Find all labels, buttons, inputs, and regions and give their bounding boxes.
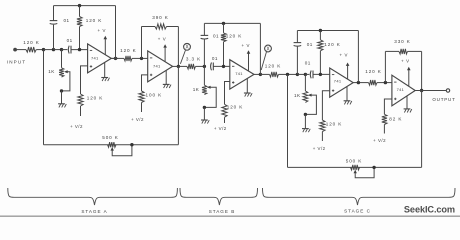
- svg-text:120 K: 120 K: [365, 69, 382, 74]
- capacitor C5 .01 (shunt): [294, 31, 313, 47]
- node VR5 return: [372, 166, 375, 169]
- node C5 (U4 output): [357, 81, 360, 84]
- svg-text:+ V: + V: [98, 28, 107, 33]
- wire top feedback down to U4 output: [357, 31, 359, 83]
- svg-text:OUTPUT: OUTPUT: [432, 97, 455, 102]
- resistor R12 120K (bias): [320, 120, 342, 131]
- svg-text:+ V: + V: [242, 43, 251, 48]
- U5 noninverting lead: [384, 99, 392, 114]
- svg-text:+ V/2: + V/2: [373, 138, 386, 143]
- wire stage A bottom: [44, 144, 179, 146]
- svg-text:500 K: 500 K: [102, 135, 119, 140]
- node B-top: [222, 22, 225, 25]
- node A2 (cap junction): [52, 48, 62, 51]
- wire R10 to stage C: [288, 73, 298, 75]
- wire R15 to +V/2: [383, 125, 385, 134]
- svg-text:741: 741: [397, 87, 405, 92]
- node B2 (op3 inverting input): [222, 65, 225, 68]
- node VR3 bottom: [203, 106, 206, 109]
- svg-text:INPUT: INPUT: [7, 60, 26, 65]
- wire R12 to +V/2: [321, 132, 323, 142]
- node C-top: [319, 29, 322, 32]
- label +V/2 (R12): [313, 146, 326, 151]
- wire R4 to U2 inverting input: [136, 57, 148, 59]
- svg-text:+ V/2: + V/2: [131, 117, 144, 122]
- svg-text:SeekIC.com: SeekIC.com: [404, 204, 455, 214]
- resistor R9 120K (bias): [222, 104, 243, 117]
- ground (U5): [404, 96, 412, 113]
- svg-text:741: 741: [235, 71, 243, 76]
- svg-text:120 K: 120 K: [87, 96, 104, 101]
- watermark SeekIC.com: [404, 204, 455, 214]
- wire R9 to +V/2: [224, 117, 226, 123]
- U1 +V supply: [98, 28, 108, 55]
- potentiometer VR2 500K: [102, 135, 119, 147]
- label +V/2 (R9): [214, 126, 227, 131]
- resistor R3 120K (bias): [78, 94, 103, 106]
- svg-text:01: 01: [307, 42, 313, 47]
- svg-text:1K: 1K: [193, 87, 200, 92]
- svg-text:741: 741: [91, 56, 99, 61]
- wire top down to R2: [79, 6, 81, 17]
- resistor R13 120K (U4-U5): [365, 69, 392, 85]
- svg-text:120 K: 120 K: [265, 63, 282, 68]
- wire C4 to op3: [213, 65, 230, 67]
- node A5 (U1 output): [114, 57, 117, 60]
- input terminal: [13, 48, 26, 52]
- wire stage C bottom: [288, 166, 422, 168]
- svg-text:500 K: 500 K: [346, 158, 363, 163]
- node A7 (U2 output): [173, 65, 187, 68]
- brace stage B: [180, 188, 258, 205]
- svg-text:01: 01: [213, 33, 219, 38]
- wire U3 output: [254, 73, 260, 75]
- capacitor C3 .01 (shunt): [201, 23, 219, 39]
- svg-text:+ V/2: + V/2: [214, 126, 227, 131]
- label +V/2 (R6): [131, 117, 144, 122]
- wire R5 down to U2 output: [177, 27, 179, 67]
- test point X (stage B out): [261, 45, 271, 70]
- capacitor C6 .01 (series): [305, 61, 313, 79]
- svg-text:741: 741: [334, 78, 342, 83]
- svg-text:330 K: 330 K: [394, 39, 411, 44]
- label STAGE C: [344, 209, 371, 214]
- svg-text:120 K: 120 K: [226, 33, 243, 38]
- svg-text:+ V: + V: [340, 53, 349, 58]
- resistor R10 120K (B out): [260, 63, 287, 77]
- svg-text:120 K: 120 K: [86, 18, 103, 23]
- svg-text:+ V/2: + V/2: [313, 146, 326, 151]
- ground (VR1): [58, 91, 66, 108]
- wire C2 up to C5: [296, 47, 298, 75]
- svg-text:120 K: 120 K: [326, 122, 343, 127]
- svg-text:01: 01: [67, 38, 73, 43]
- node A1 (input junction): [42, 48, 54, 51]
- node A4 (op1 inverting input): [78, 48, 81, 51]
- resistor R4 120K (U1-U2): [111, 48, 136, 61]
- wire B3 up (feedback): [259, 23, 261, 74]
- node B1: [203, 65, 206, 68]
- wire top feedback stage B: [204, 22, 260, 24]
- node C7 (U5 output): [415, 89, 446, 92]
- ground (VR4): [302, 114, 310, 132]
- svg-text:01: 01: [212, 56, 218, 61]
- label OUTPUT: [432, 97, 455, 102]
- wire A1 down (feedback return): [43, 50, 45, 145]
- svg-text:120 K: 120 K: [120, 48, 137, 53]
- svg-text:STAGE A: STAGE A: [81, 209, 107, 214]
- svg-text:01: 01: [63, 18, 69, 23]
- resistor R11 120K (feedback): [318, 31, 341, 51]
- potentiometer VR1 1K: [48, 50, 64, 77]
- wire R11 down to node C4: [319, 51, 321, 75]
- resistor R1 120K (input): [23, 40, 43, 52]
- wire top feedback stage C: [297, 30, 358, 32]
- test point X (stage A out): [180, 43, 190, 63]
- svg-text:01: 01: [305, 61, 311, 66]
- resistor R14 330K (U5 feedback): [385, 39, 421, 54]
- U1 noninverting lead: [81, 66, 88, 94]
- node A-top: [78, 4, 81, 7]
- bottom rule: [0, 215, 460, 217]
- svg-text:STAGE C: STAGE C: [344, 209, 371, 214]
- svg-text:+ V/2: + V/2: [70, 124, 83, 129]
- potentiometer VR5 500K: [346, 158, 363, 170]
- resistor R7 3.3K: [186, 57, 201, 69]
- VR5 wiper: [354, 167, 375, 177]
- node C1: [286, 73, 289, 76]
- node B3 (U3 output): [259, 73, 262, 76]
- capacitor C1 .01 (shunt): [50, 6, 70, 25]
- ground (U3): [244, 79, 252, 97]
- op-amp U2 741: [148, 51, 173, 82]
- wire top feedback stage A op1: [54, 5, 116, 7]
- U2 +V supply: [158, 37, 167, 62]
- VR1 wiper loop: [62, 70, 70, 91]
- VR4 wiper loop: [305, 94, 316, 115]
- node VR4 bottom: [304, 113, 307, 116]
- svg-text:741: 741: [153, 63, 161, 68]
- op-amp U4 741: [330, 68, 354, 97]
- ground (U4): [344, 87, 352, 105]
- svg-text:82 K: 82 K: [389, 117, 402, 122]
- capacitor C4 .01 (series): [211, 56, 218, 70]
- node C2: [296, 73, 306, 76]
- node VR1 bottom: [60, 89, 63, 92]
- resistor R15 82K (bias): [382, 114, 403, 124]
- wire C6 up to R14: [384, 51, 386, 82]
- wire C1 down (feedback return): [287, 74, 289, 167]
- wire R6 to +V/2: [141, 103, 143, 113]
- brace stage C: [263, 188, 456, 205]
- wire C6 to op4: [313, 73, 330, 75]
- label STAGE A: [81, 209, 107, 214]
- capacitor C2 .01 (series): [67, 38, 73, 53]
- label STAGE B: [209, 209, 236, 214]
- wire R14 down to U5 output: [421, 51, 423, 90]
- ground (VR3): [201, 107, 209, 123]
- wire top feedback down to U1 output: [115, 6, 117, 59]
- wire C7 down (feedback): [421, 91, 423, 168]
- U2 noninverting lead: [142, 75, 148, 91]
- svg-text:1K: 1K: [294, 93, 301, 98]
- U4 +V supply: [340, 53, 350, 80]
- wire A7 down (feedback): [177, 66, 179, 144]
- label +V/2 (R3): [70, 124, 83, 129]
- svg-text:STAGE B: STAGE B: [209, 209, 236, 214]
- svg-text:+ V: + V: [158, 37, 167, 42]
- node A3 (pot junction): [60, 48, 68, 51]
- op-amp U1 741: [88, 44, 112, 73]
- ground (U2): [163, 70, 171, 88]
- node C4 (op4 inverting input): [319, 73, 322, 76]
- VR2 wiper: [111, 145, 132, 156]
- U3 +V supply: [242, 43, 251, 71]
- wire C2 to op1 inverting input: [71, 49, 88, 51]
- svg-text:120 K: 120 K: [23, 40, 40, 45]
- wire U4 output: [353, 82, 368, 84]
- node C3 (pot junction): [304, 73, 310, 76]
- wire R3 to +V/2: [80, 106, 82, 116]
- op-amp U3 741: [230, 60, 254, 89]
- svg-text:+ V: + V: [401, 58, 410, 63]
- svg-text:100 K: 100 K: [146, 93, 163, 98]
- wire R2 to node A4: [79, 27, 81, 50]
- node VR2 return: [130, 143, 133, 146]
- svg-text:390 K: 390 K: [152, 15, 169, 20]
- potentiometer VR3 1K: [193, 66, 207, 94]
- resistor R2 120K (feedback): [77, 17, 102, 27]
- output terminal: [446, 89, 449, 92]
- label +V/2 (R15): [373, 138, 386, 143]
- ground (U1): [101, 62, 109, 81]
- U3 noninverting lead: [225, 82, 230, 105]
- op-amp U5 741: [392, 75, 415, 106]
- svg-text:120 K: 120 K: [324, 42, 341, 47]
- svg-text:120 K: 120 K: [227, 105, 244, 110]
- brace stage A: [8, 188, 178, 205]
- svg-text:3.3 K: 3.3 K: [186, 57, 201, 62]
- node A6 (U2 inverting input): [140, 57, 143, 60]
- resistor R6 100K (bias): [139, 91, 162, 103]
- VR3 wiper loop: [204, 86, 216, 108]
- wire R8 down to node B2: [223, 42, 225, 67]
- U5 +V supply: [401, 58, 410, 86]
- wire U1 output: [111, 57, 118, 59]
- wire A2 up to C1: [53, 25, 55, 50]
- resistor R8 120K (feedback): [221, 23, 242, 41]
- resistor R5 390K (U2 feedback): [142, 15, 179, 29]
- wire R7 to node B1: [196, 65, 205, 67]
- node C6 (U5 inverting input): [384, 81, 387, 84]
- label INPUT: [7, 60, 26, 65]
- potentiometer VR4 1K: [294, 74, 308, 102]
- wire B1 up to C3: [203, 40, 205, 67]
- svg-text:1K: 1K: [48, 69, 55, 74]
- wire A6 up to R5: [141, 27, 143, 59]
- U4 noninverting lead: [322, 91, 329, 120]
